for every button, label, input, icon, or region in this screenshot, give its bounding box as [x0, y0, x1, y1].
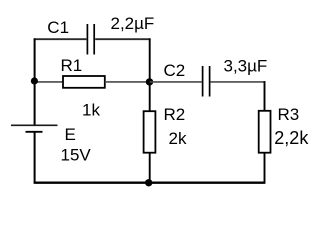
resistor R3: [259, 111, 271, 153]
wire right vertical lower (R3 to bottom wire): [264, 153, 266, 183]
wire middle-left horizontal (node A to R1): [34, 81, 63, 83]
battery E positive plate: [11, 124, 58, 126]
capacitor C2: [203, 66, 210, 97]
node C junction dot (R2 to bottom wire): [145, 179, 152, 186]
node B junction dot: [146, 78, 153, 85]
svg-text:R2: R2: [164, 105, 186, 124]
svg-text:1k: 1k: [82, 101, 100, 120]
resistor R1: [63, 76, 105, 88]
wire top-right horizontal (C1 right plate to middle branch): [95, 38, 150, 40]
svg-text:C1: C1: [47, 18, 69, 37]
svg-text:E: E: [65, 125, 76, 144]
svg-text:3,3µF: 3,3µF: [224, 57, 268, 76]
wire middle vertical lower (R2 to bottom wire): [149, 153, 151, 183]
wire right vertical upper (corner to R3): [264, 81, 266, 111]
wire R1 to node B: [105, 81, 150, 83]
wire C2 right plate to right branch: [210, 81, 265, 83]
resistor R2: [144, 111, 156, 153]
wire left vertical lower (battery to bottom wire): [34, 133, 36, 184]
svg-text:R3: R3: [278, 105, 300, 124]
wire top-left horizontal (node A to C1 left plate): [34, 38, 87, 40]
battery E negative plate: [26, 131, 43, 133]
wire bottom horizontal (ground return): [34, 182, 266, 184]
node A junction dot: [31, 77, 38, 84]
wire left vertical upper (node A up to top wire): [34, 38, 36, 125]
svg-text:R1: R1: [61, 56, 83, 75]
svg-text:2,2µF: 2,2µF: [111, 14, 155, 33]
svg-text:C2: C2: [164, 61, 186, 80]
svg-text:2k: 2k: [169, 129, 187, 148]
svg-text:15V: 15V: [61, 146, 92, 165]
svg-text:2,2k: 2,2k: [274, 128, 309, 148]
wire node B to C2 left plate: [150, 81, 202, 83]
wire middle vertical upper (top wire through node B to R2): [149, 38, 151, 111]
capacitor C1: [87, 24, 94, 55]
